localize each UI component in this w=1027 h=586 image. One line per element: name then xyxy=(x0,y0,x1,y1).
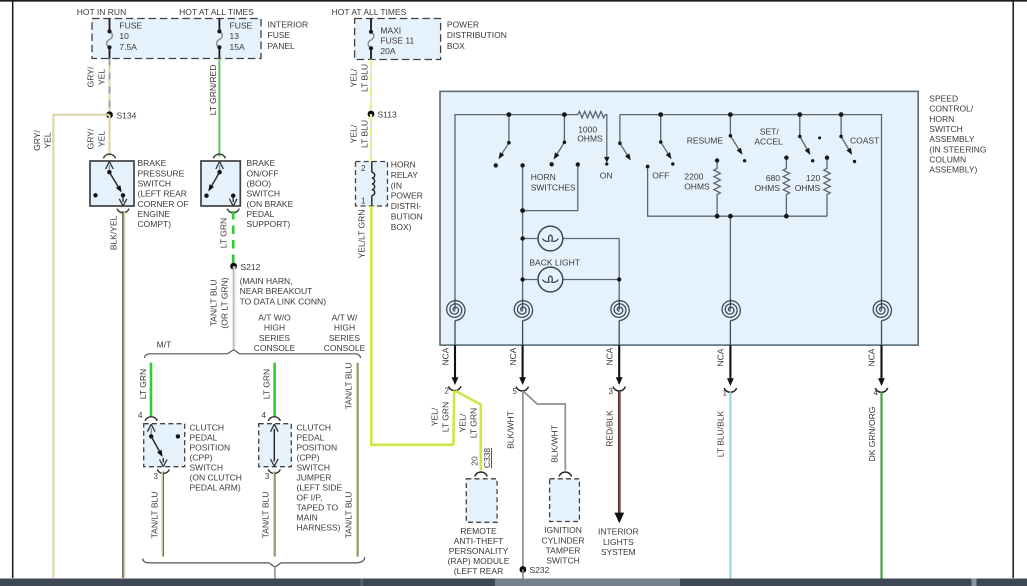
svg-text:NCA: NCA xyxy=(441,347,451,365)
svg-text:15A: 15A xyxy=(230,42,245,52)
clockspring coil 3 xyxy=(611,299,629,346)
svg-text:BLK/WHT: BLK/WHT xyxy=(506,411,516,449)
svg-text:HOT AT ALL TIMES: HOT AT ALL TIMES xyxy=(332,7,407,17)
svg-text:1: 1 xyxy=(361,197,366,206)
svg-text:BUTION: BUTION xyxy=(391,211,423,221)
svg-text:TAN/LT BLU: TAN/LT BLU xyxy=(344,492,354,539)
resume blade xyxy=(661,115,671,158)
fuse F13 lead wires xyxy=(218,19,220,32)
svg-text:HORN: HORN xyxy=(391,160,416,170)
svg-text:(CPP): (CPP) xyxy=(190,453,213,463)
svg-text:GRY/: GRY/ xyxy=(32,130,42,151)
svg-text:FUSE: FUSE xyxy=(119,20,142,30)
svg-text:TO DATA LINK CONN): TO DATA LINK CONN) xyxy=(240,296,327,306)
wire YEL/LT GRN pin 2 to C338 xyxy=(456,391,481,471)
wire LT GRN/RED from fuse 13 to BOO switch xyxy=(218,59,220,157)
svg-text:HIGH: HIGH xyxy=(264,323,285,333)
svg-text:CORNER OF: CORNER OF xyxy=(138,199,189,209)
tamper switch connector arc xyxy=(559,472,571,476)
junction dots inside assembly xyxy=(494,112,857,281)
wire BLK/WHT pin 5 to S232 xyxy=(522,391,524,570)
back light lamp 1 xyxy=(538,226,563,251)
svg-text:PEDAL: PEDAL xyxy=(297,433,325,443)
page border frame right xyxy=(1012,0,1014,578)
svg-text:SERIES: SERIES xyxy=(329,333,361,343)
svg-text:OF I/P,: OF I/P, xyxy=(297,493,323,503)
splice S113 xyxy=(368,111,375,118)
svg-text:YEL: YEL xyxy=(97,131,107,147)
wire TAN/LT BLU from S212 to branch brace xyxy=(233,266,235,349)
wire OFF contact down to resistor bus xyxy=(648,168,827,216)
svg-text:RESUME: RESUME xyxy=(687,135,724,145)
svg-text:(IN: (IN xyxy=(391,180,402,190)
svg-text:ACCEL: ACCEL xyxy=(754,137,783,147)
svg-text:NCA: NCA xyxy=(867,348,877,366)
svg-text:BACK LIGHT: BACK LIGHT xyxy=(529,257,580,267)
clockspring coil 2 xyxy=(514,299,532,346)
maxi fuse 11 element xyxy=(368,32,374,48)
svg-text:SUPPORT): SUPPORT) xyxy=(247,219,291,229)
svg-text:POSITION: POSITION xyxy=(190,443,231,453)
coast blade xyxy=(841,115,851,153)
horn switch 2 blade xyxy=(555,115,565,158)
svg-text:LIGHTS: LIGHTS xyxy=(603,537,634,547)
svg-text:(IN STEERING: (IN STEERING xyxy=(929,144,986,154)
svg-text:(MAIN HARN,: (MAIN HARN, xyxy=(240,276,293,286)
back light lamp 2 xyxy=(538,267,563,292)
svg-text:3: 3 xyxy=(154,472,159,481)
svg-text:RELAY: RELAY xyxy=(391,170,419,180)
svg-text:LT BLU: LT BLU xyxy=(360,64,370,92)
svg-text:SPEED: SPEED xyxy=(929,94,958,104)
svg-text:BOX): BOX) xyxy=(391,222,412,232)
svg-text:FUSE 11: FUSE 11 xyxy=(380,36,414,46)
svg-text:7.5A: 7.5A xyxy=(119,42,137,52)
power distribution box (maxi fuse) xyxy=(355,19,441,60)
wire: horn bus down to backlight and spiral 2 xyxy=(522,211,524,299)
svg-text:SET/: SET/ xyxy=(760,127,780,137)
svg-text:SWITCH: SWITCH xyxy=(929,124,963,134)
svg-text:SERIES: SERIES xyxy=(259,333,291,343)
wire YEL/LT BLU from maxi fuse to S113 xyxy=(370,60,372,115)
svg-text:OHMS: OHMS xyxy=(684,182,710,192)
svg-text:3: 3 xyxy=(265,472,270,481)
svg-text:A/T W/: A/T W/ xyxy=(332,313,358,323)
svg-text:PANEL: PANEL xyxy=(268,41,296,51)
svg-text:A/T W/O: A/T W/O xyxy=(258,313,291,323)
wire LT BLU/BLK pin 1 to bottom xyxy=(729,392,731,578)
splice S134 xyxy=(106,111,113,118)
svg-text:INTERIOR: INTERIOR xyxy=(598,527,639,537)
svg-text:SWITCHES: SWITCHES xyxy=(531,182,576,192)
svg-text:3: 3 xyxy=(609,387,614,396)
svg-text:NCA: NCA xyxy=(508,347,518,365)
svg-text:COLUMN: COLUMN xyxy=(929,154,966,164)
wire resistor bus to spiral 4 xyxy=(729,216,731,299)
svg-text:SWITCH: SWITCH xyxy=(138,179,172,189)
wire LT GRN (M/T branch) xyxy=(150,363,153,417)
svg-text:C338: C338 xyxy=(482,448,492,469)
clutch pedal position (CPP) switch jumper xyxy=(259,411,292,481)
svg-text:BRAKE: BRAKE xyxy=(138,158,167,168)
svg-text:LT GRN: LT GRN xyxy=(262,369,272,399)
bottom taskbar xyxy=(0,579,1027,586)
svg-text:FUSE: FUSE xyxy=(230,20,253,30)
svg-text:OHMS: OHMS xyxy=(795,183,821,193)
svg-text:NEAR BREAKOUT: NEAR BREAKOUT xyxy=(240,286,313,296)
svg-text:YEL: YEL xyxy=(43,132,53,148)
svg-text:ANTI-THEFT: ANTI-THEFT xyxy=(454,536,504,546)
wire GRY/YEL branch from S134 to left margin xyxy=(53,115,109,578)
brake pressure switch xyxy=(90,154,134,213)
svg-text:CLUTCH: CLUTCH xyxy=(297,423,331,433)
svg-text:YEL/: YEL/ xyxy=(349,124,359,143)
svg-text:SYSTEM: SYSTEM xyxy=(601,547,636,557)
svg-text:POWER: POWER xyxy=(447,20,479,30)
page border frame left xyxy=(12,0,14,578)
svg-text:CYLINDER: CYLINDER xyxy=(542,535,585,545)
horn switches connector verticals xyxy=(523,165,578,211)
blade arrowheads xyxy=(499,148,853,166)
wire RED/BLK pin 3 to interior lights xyxy=(618,391,621,513)
svg-text:LT BLU/BLK: LT BLU/BLK xyxy=(716,410,726,457)
svg-text:RED/BLK: RED/BLK xyxy=(605,410,615,447)
wire LT GRN (A/T W/O branch) xyxy=(273,363,276,417)
svg-text:(LEFT SIDE: (LEFT SIDE xyxy=(297,483,343,493)
clockspring coil 1 xyxy=(447,299,465,346)
splice S212 xyxy=(230,263,237,270)
pin 3 lead (NCA) xyxy=(618,345,620,379)
wire GRY/YEL dashed from fuse 10 to S134 xyxy=(109,59,111,115)
svg-text:(ON CLUTCH: (ON CLUTCH xyxy=(190,473,242,483)
svg-text:ENGINE: ENGINE xyxy=(138,209,171,219)
horn switch 1 blade xyxy=(500,115,509,158)
resistor 1000 OHMS xyxy=(578,111,605,117)
svg-text:OHMS: OHMS xyxy=(755,183,781,193)
svg-text:HORN: HORN xyxy=(929,114,954,124)
svg-text:SWITCH: SWITCH xyxy=(190,463,224,473)
svg-text:HIGH: HIGH xyxy=(334,323,355,333)
svg-text:REMOTE: REMOTE xyxy=(460,526,497,536)
svg-text:SWITCH: SWITCH xyxy=(247,189,281,199)
svg-text:4: 4 xyxy=(138,411,143,420)
clockspring coil 4 xyxy=(722,299,740,346)
clutch pedal position (CPP) switch xyxy=(138,411,185,481)
gather brace at bottom of CPP branches xyxy=(143,557,365,567)
resistor 2200 OHMS xyxy=(714,161,720,217)
svg-text:ASSEMBLY): ASSEMBLY) xyxy=(929,165,977,175)
wire: left horn bus horizontal xyxy=(455,115,578,299)
svg-text:SWITCH: SWITCH xyxy=(546,556,580,566)
wire BLK/WHT branch to tamper switch xyxy=(524,392,566,471)
connector C338 arc xyxy=(475,472,487,476)
svg-text:SWITCH: SWITCH xyxy=(297,463,331,473)
svg-text:ON/OFF: ON/OFF xyxy=(247,168,279,178)
pin 2 lead (NCA) xyxy=(454,345,456,379)
svg-text:(LEFT REAR: (LEFT REAR xyxy=(454,566,503,576)
svg-text:2: 2 xyxy=(361,164,366,173)
svg-text:TAN/LT BLU: TAN/LT BLU xyxy=(261,492,271,539)
svg-text:COAST: COAST xyxy=(850,135,879,145)
svg-text:OHMS: OHMS xyxy=(577,133,603,143)
svg-text:CONTROL/: CONTROL/ xyxy=(929,104,974,114)
wire YEL/LT GRN from horn relay to junction with pin2 wire xyxy=(371,206,453,445)
set/accel blade xyxy=(730,115,741,153)
pin 5 lead (NCA) xyxy=(522,345,524,379)
svg-text:DISTRI-: DISTRI- xyxy=(391,201,422,211)
combined wire stub below brace xyxy=(274,567,276,579)
wire TAN/LT BLU below CPP jumper xyxy=(274,472,276,557)
resistor 120 OHMS xyxy=(824,158,830,217)
svg-text:YEL/LT GRN: YEL/LT GRN xyxy=(357,210,367,259)
wire DK GRN/ORG pin 4 to bottom xyxy=(880,392,882,578)
svg-text:CONSOLE: CONSOLE xyxy=(254,343,296,353)
svg-text:TAN/LT BLU: TAN/LT BLU xyxy=(150,492,160,539)
svg-text:LT GRN/RED: LT GRN/RED xyxy=(208,65,218,116)
back light lamp leads xyxy=(523,239,620,300)
svg-text:TAN/LT BLU: TAN/LT BLU xyxy=(344,363,354,410)
svg-text:S113: S113 xyxy=(378,110,397,120)
brake on/off (BOO) switch xyxy=(201,154,240,213)
OFF-ON selector blade xyxy=(620,115,630,159)
svg-text:YEL: YEL xyxy=(97,69,107,85)
svg-text:DK GRN/ORG: DK GRN/ORG xyxy=(867,407,877,462)
svg-text:TAN/LT BLU: TAN/LT BLU xyxy=(209,280,219,327)
svg-text:HOT IN RUN: HOT IN RUN xyxy=(77,7,126,17)
svg-text:PERSONALITY: PERSONALITY xyxy=(449,546,509,556)
svg-text:POSITION: POSITION xyxy=(297,443,338,453)
svg-text:ON: ON xyxy=(600,170,613,180)
clockspring coil 5 xyxy=(873,299,891,346)
svg-text:HORN: HORN xyxy=(531,172,556,182)
coast pre-blade xyxy=(800,115,809,153)
svg-text:(CPP): (CPP) xyxy=(297,453,320,463)
svg-text:S232: S232 xyxy=(530,565,550,575)
svg-text:4: 4 xyxy=(262,411,267,420)
svg-text:YEL/: YEL/ xyxy=(458,413,468,432)
svg-text:INTERIOR: INTERIOR xyxy=(268,20,309,30)
svg-text:POWER: POWER xyxy=(391,191,423,201)
svg-text:(ON BRAKE: (ON BRAKE xyxy=(247,199,294,209)
svg-text:M/T: M/T xyxy=(157,340,172,350)
svg-text:MAIN: MAIN xyxy=(297,513,318,523)
svg-text:BRAKE: BRAKE xyxy=(247,158,276,168)
svg-text:MAXI: MAXI xyxy=(380,25,401,35)
wire TAN/LT BLU below CPP switch xyxy=(162,472,164,557)
maxi fuse 11 lead wires xyxy=(370,19,372,32)
svg-text:FUSE: FUSE xyxy=(268,30,291,40)
svg-text:PEDAL ARM): PEDAL ARM) xyxy=(190,483,241,493)
svg-text:HOT AT ALL TIMES: HOT AT ALL TIMES xyxy=(179,7,254,17)
svg-text:S134: S134 xyxy=(117,111,137,121)
svg-text:YEL/: YEL/ xyxy=(430,407,440,426)
wire YEL/LT GRN pin 2 to horn relay junction xyxy=(452,391,456,445)
svg-text:GRY/: GRY/ xyxy=(86,66,96,87)
wire GRY/YEL from S134 to brake pressure switch xyxy=(108,115,110,157)
interior fuse panel box xyxy=(92,19,261,59)
wire YEL/LT BLU from S113 to horn relay xyxy=(370,114,372,162)
right selector bus xyxy=(620,115,882,299)
svg-text:BOX: BOX xyxy=(447,41,465,51)
svg-text:DISTRIBUTION: DISTRIBUTION xyxy=(447,30,507,40)
page border frame top xyxy=(0,0,1027,2)
wire LT GRN dashed from BOO switch to S212 xyxy=(232,211,235,266)
pin 1 lead (NCA) xyxy=(729,345,731,380)
branch brace (M/T / A-T split) xyxy=(145,350,361,358)
fuse F10 lead wires xyxy=(109,19,111,32)
svg-text:BLK/YEL: BLK/YEL xyxy=(109,215,119,250)
ON contact arrow xyxy=(604,157,610,163)
svg-text:LT GRN: LT GRN xyxy=(138,369,148,399)
svg-text:S212: S212 xyxy=(241,262,261,272)
svg-text:JUMPER: JUMPER xyxy=(297,473,332,483)
fuse F13 element xyxy=(217,31,223,47)
wire BLK/YEL from brake pressure switch to bottom xyxy=(122,211,124,578)
svg-text:680: 680 xyxy=(766,173,780,183)
fuse F10 element xyxy=(107,31,113,47)
svg-text:20: 20 xyxy=(470,456,480,466)
svg-text:CONSOLE: CONSOLE xyxy=(324,343,366,353)
svg-text:120: 120 xyxy=(806,173,820,183)
svg-text:TAMPER: TAMPER xyxy=(546,545,581,555)
svg-text:OFF: OFF xyxy=(652,170,669,180)
svg-text:NCA: NCA xyxy=(716,348,726,366)
remote anti-theft personality (RAP) module box xyxy=(466,479,497,523)
svg-text:ASSEMBLY: ASSEMBLY xyxy=(929,134,975,144)
svg-text:(OR LT GRN): (OR LT GRN) xyxy=(220,277,230,328)
svg-text:10: 10 xyxy=(119,31,129,41)
svg-text:20A: 20A xyxy=(380,46,395,56)
svg-text:COMPT): COMPT) xyxy=(138,219,172,229)
ignition cylinder tamper switch box xyxy=(550,479,580,522)
svg-text:LT GRN: LT GRN xyxy=(469,408,479,438)
interior lights system arrow xyxy=(614,513,624,524)
svg-text:GRY/: GRY/ xyxy=(86,128,96,149)
svg-text:HARNESS): HARNESS) xyxy=(297,523,341,533)
svg-text:NCA: NCA xyxy=(605,347,615,365)
svg-text:BLK/WHT: BLK/WHT xyxy=(550,425,560,463)
speed control / horn switch assembly box xyxy=(440,91,918,345)
pin 4 lead (NCA) xyxy=(880,345,882,380)
svg-text:PEDAL: PEDAL xyxy=(190,433,218,443)
svg-text:IGNITION: IGNITION xyxy=(544,525,582,535)
svg-text:2200: 2200 xyxy=(684,172,703,182)
svg-text:PRESSURE: PRESSURE xyxy=(138,168,185,178)
svg-text:13: 13 xyxy=(230,31,240,41)
svg-text:LT GRN: LT GRN xyxy=(441,402,451,432)
splice S232 xyxy=(520,566,527,573)
svg-text:(BOO): (BOO) xyxy=(247,179,272,189)
wire TAN/LT BLU (A/T W/ branch, full) xyxy=(357,363,359,557)
svg-text:(RAP) MODULE: (RAP) MODULE xyxy=(448,556,510,566)
svg-text:YEL/: YEL/ xyxy=(349,68,359,87)
svg-text:PEDAL: PEDAL xyxy=(247,209,275,219)
svg-text:CLUTCH: CLUTCH xyxy=(190,423,224,433)
horn relay K1 xyxy=(356,162,388,207)
wire: 1000 ohm to ON contact xyxy=(605,115,607,159)
svg-text:LT BLU: LT BLU xyxy=(360,120,370,148)
svg-text:LT GRN: LT GRN xyxy=(219,218,229,248)
svg-text:TAPED TO: TAPED TO xyxy=(297,503,339,513)
resistor 680 OHMS xyxy=(783,158,789,217)
svg-text:(LEFT REAR: (LEFT REAR xyxy=(138,189,187,199)
